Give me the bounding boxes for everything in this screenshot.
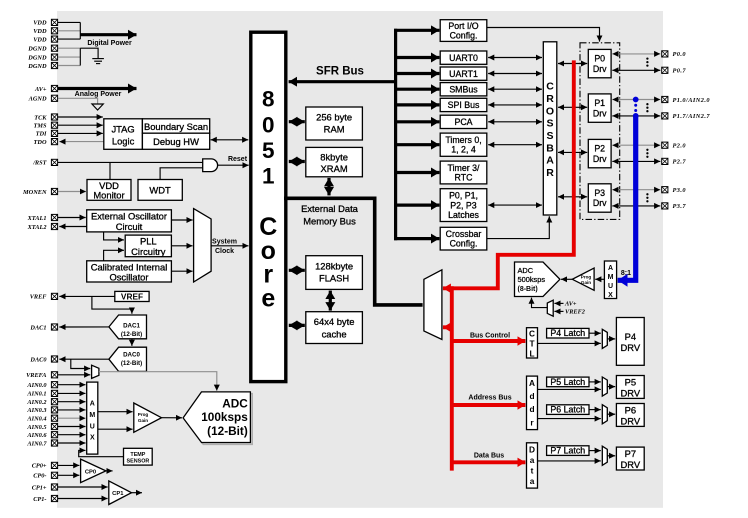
svg-text:X: X [608, 292, 613, 299]
svg-text:Boundary Scan: Boundary Scan [144, 121, 208, 132]
blue dotted continuation [634, 104, 637, 112]
ADC2 500ksps 8-bit [515, 262, 560, 297]
wire FLASH-cache double arrow [329, 291, 332, 311]
wire AIN0.7 to AMUX [58, 442, 86, 444]
svg-text:Drv: Drv [593, 198, 607, 208]
wire AMUX to prog gain (top) [98, 411, 133, 413]
svg-text:AGND: AGND [28, 96, 47, 103]
PLL Circuitry box [125, 235, 171, 257]
Addr box [527, 376, 538, 430]
pin P3.7 [662, 203, 687, 210]
svg-text:AIN0.1: AIN0.1 [26, 391, 46, 398]
svg-text:SFR Bus: SFR Bus [316, 66, 364, 78]
SPI Bus box [440, 98, 487, 111]
Timers 0 1 2 4 box [440, 133, 487, 156]
svg-text:DRV: DRV [620, 342, 640, 353]
wire crossbar-P3 Drv double arrow [558, 196, 587, 198]
svg-text:PCA: PCA [454, 117, 472, 127]
SMBus box [440, 83, 487, 96]
pin TMS [34, 122, 58, 129]
wire CP0 output [106, 470, 113, 472]
analog ground symbol [92, 104, 103, 110]
svg-text:Bus Control: Bus Control [470, 332, 510, 339]
pin AGND [28, 95, 58, 102]
wire CP0+ [58, 464, 79, 466]
pin TCK [34, 114, 57, 121]
wire peripheral-crossbar double arrow [488, 73, 542, 75]
pin CP0- [33, 472, 57, 479]
P7 mux [602, 446, 607, 465]
svg-text:VDD: VDD [33, 20, 47, 27]
svg-text:AIN0.6: AIN0.6 [26, 432, 47, 439]
svg-text:DRV: DRV [620, 459, 640, 470]
svg-text:M: M [608, 274, 614, 281]
256 byte RAM box [306, 107, 363, 140]
wire VDD pin 3 [58, 38, 80, 40]
digital ground symbol [92, 59, 104, 64]
wire cal osc to PLL [104, 250, 124, 260]
P5 mux [602, 377, 607, 396]
wire AGND [58, 98, 98, 103]
SFR branch 10 [394, 237, 439, 240]
svg-text:TMS: TMS [34, 123, 47, 130]
wire XTAL2 [59, 226, 86, 228]
pin P0.7 [662, 67, 687, 74]
wire AIN0.2 to AMUX [58, 401, 86, 403]
svg-text:XTAL2: XTAL2 [27, 224, 47, 231]
svg-text:RAM: RAM [324, 124, 345, 135]
svg-text:P4: P4 [625, 331, 636, 342]
svg-text:Reset: Reset [228, 156, 248, 163]
wire ext osc to clock mux [171, 219, 192, 221]
svg-text:5: 5 [262, 138, 275, 163]
svg-text:External Data: External Data [301, 203, 359, 214]
blue junction dot on P1.7 line [633, 113, 639, 119]
wire PLL to clock mux [171, 245, 192, 247]
P5 DRV box [616, 376, 644, 399]
svg-text:DAC1: DAC1 [29, 324, 46, 331]
svg-text:S: S [546, 130, 553, 142]
pin VREFA [26, 372, 58, 379]
svg-text:P2, P3: P2, P3 [450, 200, 477, 210]
wire DGND pin 2 [58, 56, 80, 58]
dots P3 pins [646, 193, 648, 202]
PCA box [440, 115, 487, 128]
svg-text:Prog: Prog [581, 274, 592, 279]
svg-text:RTC: RTC [455, 173, 474, 183]
External Oscillator Circuit box [87, 210, 172, 232]
TEMP SENSOR box [124, 448, 153, 465]
wire P3 Drv to pin P3.7 [612, 205, 660, 207]
svg-text:P1.7/AIN2.7: P1.7/AIN2.7 [673, 113, 711, 120]
svg-text:A: A [90, 401, 95, 408]
wire AIN0.6 to AMUX [58, 434, 86, 436]
svg-text:(12-Bit): (12-Bit) [121, 331, 142, 338]
SFR branch 4 [394, 88, 439, 91]
svg-text:VREFA: VREFA [26, 372, 46, 379]
wire TDO [59, 141, 104, 143]
UART0 box [440, 51, 487, 64]
svg-text:d: d [529, 404, 534, 414]
svg-text:XTAL1: XTAL1 [27, 215, 47, 222]
svg-text:Drv: Drv [593, 64, 607, 74]
svg-text:(8-Bit): (8-Bit) [518, 286, 538, 293]
P4 DRV box [616, 318, 644, 366]
svg-text:Address Bus: Address Bus [468, 395, 511, 402]
wire AV+ to vref2 mux [554, 301, 577, 308]
svg-text:256 byte: 256 byte [316, 111, 352, 122]
svg-text:e: e [261, 285, 275, 313]
svg-text:VREF2: VREF2 [565, 309, 585, 316]
svg-text:Memory Bus: Memory Bus [303, 215, 356, 226]
pin AIN0.3 [26, 407, 57, 414]
Data box [527, 443, 538, 488]
svg-text:Circuitry: Circuitry [131, 246, 166, 257]
wire peripheral-crossbar double arrow [488, 104, 542, 106]
svg-text:VDD: VDD [33, 36, 47, 43]
svg-text:A: A [546, 155, 554, 167]
wire crossbar-P1 Drv double arrow [558, 106, 587, 108]
svg-text:DRV: DRV [620, 415, 640, 426]
wire register to P4 mux [538, 342, 601, 344]
pin DGND [27, 54, 57, 61]
wire AIN0.0 to AMUX [58, 384, 86, 386]
svg-text:P1.0/AIN2.0: P1.0/AIN2.0 [673, 97, 711, 104]
wire register to P7 mux [538, 460, 601, 462]
P7 DRV box [616, 447, 644, 470]
svg-text:P1: P1 [594, 98, 605, 108]
svg-text:DGND: DGND [27, 46, 47, 53]
external memory mux [424, 270, 442, 340]
svg-text:64x4 byte: 64x4 byte [314, 316, 355, 327]
pin DGND [27, 45, 57, 52]
wire register to P5 mux [538, 388, 601, 390]
wire P6 latch to mux [589, 409, 601, 411]
svg-text:CP1+: CP1+ [32, 484, 47, 491]
svg-text:Data Bus: Data Bus [474, 452, 504, 459]
svg-text:AV+: AV+ [34, 86, 47, 93]
P3 Drv box [588, 184, 611, 212]
svg-text:JTAG: JTAG [111, 123, 134, 134]
svg-text:U: U [608, 283, 613, 290]
wire port io config to port drivers [487, 28, 600, 42]
svg-text:R: R [546, 93, 554, 105]
VDD Monitor box [87, 180, 131, 201]
Analog Power bus arrow [58, 89, 137, 99]
svg-text:P6: P6 [625, 404, 636, 415]
svg-text:P3: P3 [594, 188, 605, 198]
svg-text:1: 1 [262, 164, 275, 189]
svg-text:AIN0.0: AIN0.0 [26, 382, 47, 389]
wire P3 Drv to pin P3.0 [612, 189, 660, 191]
dots P0 pins [646, 57, 648, 66]
AMUX box (ADC0) [87, 382, 98, 454]
pin AIN0.7 [26, 440, 57, 447]
svg-text:1, 2, 4: 1, 2, 4 [451, 145, 476, 155]
svg-text:P3.7: P3.7 [673, 203, 687, 210]
UART1 box [440, 67, 487, 80]
wire P0 Drv to pin P0.7 [612, 69, 660, 71]
svg-text:P5 Latch: P5 Latch [550, 377, 585, 387]
svg-text:SMBus: SMBus [449, 85, 478, 95]
svg-text:AIN0.3: AIN0.3 [26, 407, 46, 414]
wire P4 mux to drv [607, 338, 615, 340]
svg-text:TEMP: TEMP [130, 452, 145, 458]
wire VDD junction vertical [79, 22, 81, 39]
red bus from crossbar to memory mux [443, 60, 574, 288]
prog gain amp (ADC0) [134, 403, 162, 432]
svg-text:AV+: AV+ [564, 301, 577, 308]
svg-text:P4 Latch: P4 Latch [550, 328, 585, 338]
svg-text:Timers 0,: Timers 0, [445, 135, 481, 145]
wire core-FLASH double arrow [289, 269, 305, 272]
wire P6 mux to drv [607, 413, 615, 415]
svg-text:Clock: Clock [215, 248, 234, 255]
wire MONEN [58, 191, 86, 193]
SFR branch 8 [394, 171, 439, 174]
svg-text:Logic: Logic [112, 136, 135, 147]
pin AIN0.5 [26, 423, 57, 430]
svg-text:P2.0: P2.0 [673, 143, 687, 150]
svg-text:8kbyte: 8kbyte [320, 151, 348, 162]
svg-text:External Oscillator: External Oscillator [91, 211, 167, 222]
P6 Latch box [547, 405, 589, 415]
Digital Power bus arrow [80, 35, 136, 47]
svg-text:Config.: Config. [450, 31, 478, 41]
prog gain amp (ADC2) [572, 268, 594, 290]
pin XTAL1 [27, 214, 58, 221]
P5 Latch box [547, 377, 589, 387]
svg-text:Monitor: Monitor [93, 189, 124, 200]
ADC0 100ksps 12-bit [183, 392, 250, 443]
dots P2 pins [646, 149, 648, 158]
svg-text:P0: P0 [594, 54, 605, 64]
WDT box [138, 180, 182, 201]
svg-text:P0, P1,: P0, P1, [449, 191, 478, 201]
pin DAC1 [29, 324, 57, 331]
VREF box [115, 291, 149, 301]
wire /RST [58, 161, 203, 163]
svg-text:TDO: TDO [34, 139, 47, 146]
svg-text:DAC0: DAC0 [123, 351, 140, 358]
svg-text:WDT: WDT [149, 185, 171, 196]
svg-text:100ksps: 100ksps [201, 410, 248, 424]
wire /RST branch to VDD monitor [109, 162, 111, 179]
svg-text:XRAM: XRAM [321, 163, 348, 174]
svg-text:CP0+: CP0+ [32, 463, 47, 470]
pin AIN0.0 [26, 382, 57, 389]
wire P1 Drv to pin P1.0 [612, 99, 660, 101]
wire P1 Drv to pin P1.7 [612, 115, 660, 117]
pin TDI [36, 130, 58, 137]
svg-text:R: R [546, 167, 554, 179]
wire ext osc to PLL [104, 232, 124, 240]
wire XTAL1 [58, 217, 86, 219]
wire DGND junction vertical [79, 48, 81, 65]
svg-text:A: A [529, 378, 535, 388]
Calibrated Internal Oscillator box [87, 261, 172, 283]
svg-text:Analog Power: Analog Power [75, 91, 122, 98]
P4 Latch box [547, 328, 589, 338]
svg-text:Gain: Gain [581, 280, 591, 285]
wire peripheral-crossbar double arrow [488, 204, 542, 206]
svg-text:/RST: /RST [32, 160, 47, 167]
svg-text:0: 0 [262, 113, 275, 138]
SFR branch 9 [394, 204, 439, 207]
vref mux [92, 365, 99, 378]
svg-text:DRV: DRV [620, 387, 640, 398]
svg-text:Drv: Drv [593, 108, 607, 118]
diagram gray background [57, 11, 663, 508]
svg-text:B: B [546, 142, 554, 154]
pin AIN0.2 [26, 399, 57, 406]
svg-text:D: D [529, 445, 535, 455]
wire CP1 output [132, 492, 143, 494]
Timer 3 RTC box [440, 161, 487, 184]
wire VDD pin 2 [58, 30, 80, 32]
svg-text:Digital Power: Digital Power [87, 40, 132, 47]
pin P1.7/AIN2.7 [662, 113, 711, 120]
pin TDO [34, 139, 58, 146]
svg-text:Latches: Latches [448, 210, 479, 220]
pin XTAL2 [27, 223, 58, 230]
svg-text:Oscillator: Oscillator [109, 272, 148, 283]
wire peripheral-crossbar double arrow [488, 57, 542, 59]
svg-text:8:1: 8:1 [621, 270, 631, 277]
svg-text:FLASH: FLASH [319, 273, 349, 284]
128kbyte FLASH box [306, 256, 363, 290]
svg-text:P0.0: P0.0 [673, 51, 687, 58]
wire AMUX2 to prog gain [595, 278, 604, 280]
wire P5 latch to mux [589, 381, 601, 383]
Crossbar Config box [440, 227, 487, 250]
svg-text:C: C [546, 81, 554, 93]
wire P0 Drv to pin P0.0 [612, 53, 660, 55]
svg-text:P7: P7 [625, 448, 636, 459]
wire VREF to pin [59, 295, 115, 297]
wire core-XRAM double arrow [289, 160, 305, 163]
svg-text:8: 8 [262, 87, 275, 112]
SFR bus spine [394, 29, 397, 241]
ADC0 shadow [185, 394, 252, 445]
wire AIN0.3 to AMUX [58, 409, 86, 411]
svg-text:VREF: VREF [121, 291, 143, 301]
svg-text:Debug HW: Debug HW [153, 136, 199, 147]
svg-text:AIN0.5: AIN0.5 [26, 424, 46, 431]
wire TCK [58, 116, 103, 118]
wire P2 Drv to pin P2.0 [612, 144, 660, 146]
svg-text:(12-Bit): (12-Bit) [121, 360, 142, 367]
svg-text:AIN0.2: AIN0.2 [26, 399, 46, 406]
svg-text:CP1: CP1 [112, 491, 124, 497]
svg-text:M: M [89, 412, 95, 419]
svg-text:Prog: Prog [138, 412, 149, 417]
svg-text:UART1: UART1 [449, 69, 478, 79]
pin CP0+ [32, 462, 58, 469]
svg-text:500ksps: 500ksps [518, 275, 546, 284]
pin DAC0 [29, 356, 57, 363]
pin MONEN [22, 188, 58, 195]
svg-text:AIN0.7: AIN0.7 [26, 440, 47, 447]
wire CP0- [58, 474, 79, 476]
wire crossbar-P2 Drv double arrow [558, 151, 587, 153]
SFR branch 6 [394, 120, 439, 123]
P0-P3 latches box [440, 189, 487, 222]
svg-text:t: t [531, 466, 534, 476]
svg-text:L: L [529, 348, 534, 358]
wire register to P6 mux [538, 418, 601, 420]
red bus vertical trunk [450, 286, 454, 470]
clock mux [194, 209, 212, 282]
svg-text:MONEN: MONEN [22, 189, 47, 196]
svg-text:128kbyte: 128kbyte [315, 260, 353, 271]
svg-text:DGND: DGND [27, 54, 47, 61]
reset gate [203, 159, 218, 172]
svg-text:UART0: UART0 [449, 53, 478, 63]
pin P3.0 [662, 187, 687, 194]
svg-text:A: A [608, 265, 613, 272]
pin CP1+ [32, 484, 58, 491]
pin CP1- [33, 495, 57, 502]
vref2 mux [547, 300, 553, 316]
wire WDT to gate [160, 168, 203, 180]
wire AMUX to prog gain (bottom) [98, 428, 133, 430]
wire AIN0.5 to AMUX [58, 426, 86, 428]
SFR branch 2 [394, 56, 439, 59]
wire DGND pin 1 [58, 47, 80, 49]
comparator CP1 [109, 481, 132, 505]
pin P2.0 [662, 142, 687, 149]
svg-text:AIN0.4: AIN0.4 [26, 416, 46, 423]
svg-text:Port I/O: Port I/O [448, 21, 478, 31]
red address bus branch [452, 395, 526, 406]
wire prog gain to ADC2 [561, 278, 572, 280]
red bus arrow into memory mux (lower) [443, 325, 452, 329]
svg-text:a: a [530, 455, 535, 465]
wire core-RAM double arrow [289, 120, 305, 123]
pin P2.7 [662, 158, 687, 165]
wire VREF branch to DAC1 [92, 296, 132, 313]
wire reset to core [218, 156, 249, 165]
SFR Bus line [289, 66, 396, 82]
DAC0 [109, 347, 147, 371]
svg-text:P2: P2 [594, 144, 605, 154]
pin AV+ [34, 85, 58, 92]
svg-text:X: X [90, 435, 95, 442]
svg-text:Circuit: Circuit [116, 221, 143, 232]
svg-text:Crossbar: Crossbar [446, 229, 482, 239]
dots P1 pins [646, 103, 648, 112]
pin VDD [33, 19, 57, 26]
wire system clock to core [211, 238, 248, 254]
pin P0.0 [662, 51, 687, 58]
wire TMS [58, 124, 103, 126]
port drivers dash-dot enclosure [580, 43, 620, 220]
svg-text:DAC0: DAC0 [29, 356, 47, 363]
pin VREF [30, 293, 58, 300]
svg-text:d: d [529, 391, 534, 401]
wire VREFA to vref mux [58, 374, 90, 376]
comparator CP0 [81, 459, 106, 483]
pin VDD [33, 36, 57, 43]
wire VREF2 to vref2 mux [554, 309, 585, 316]
svg-text:T: T [529, 338, 534, 348]
svg-text:P2.7: P2.7 [673, 159, 687, 166]
svg-text:P0.7: P0.7 [673, 68, 687, 75]
wire AIN0.1 to AMUX [58, 392, 86, 394]
wire XRAM-extmem double arrow [327, 178, 330, 196]
svg-text:SPI Bus: SPI Bus [448, 100, 480, 110]
